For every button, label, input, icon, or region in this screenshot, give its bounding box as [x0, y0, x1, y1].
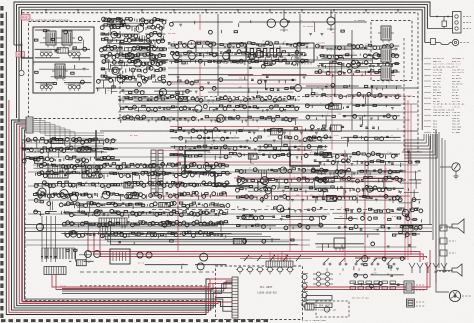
wire heavy trace 1	[185, 151, 250, 187]
main cluster H2	[59, 201, 231, 238]
pll transistor row	[236, 267, 294, 274]
connector J7 ribbon	[44, 267, 66, 275]
diode matrix D1	[409, 263, 447, 273]
mid cluster J	[236, 167, 330, 204]
wire rail I	[118, 111, 418, 113]
wire J5 fanout	[100, 226, 298, 244]
resistor ladder	[42, 248, 75, 259]
wire rail E	[33, 164, 418, 166]
wire right bus drop	[421, 60, 423, 130]
wire rail F	[168, 59, 370, 61]
mic connector J12	[436, 283, 471, 302]
wire rail S	[168, 67, 368, 69]
rx unit dashed border	[29, 22, 121, 119]
label PB-1534A	[303, 25, 314, 28]
label DETECTOR	[196, 40, 207, 43]
transformer T2	[59, 31, 75, 48]
wire vertical V4	[351, 30, 353, 130]
coil array L1	[40, 51, 52, 58]
cluster X	[145, 253, 227, 270]
footer text 2	[352, 297, 370, 300]
wire vertical V5	[177, 60, 179, 130]
speaker SP1	[444, 219, 464, 233]
top strip cluster	[170, 19, 367, 36]
label TUB	[36, 201, 40, 204]
label AF AMP	[130, 134, 139, 137]
red riser PLL	[278, 254, 287, 261]
wire arrows down	[41, 216, 57, 262]
switch cluster M	[332, 207, 422, 232]
left group	[34, 192, 57, 216]
transformer T1	[43, 31, 59, 48]
IC U4	[297, 43, 314, 65]
IC U5	[196, 42, 212, 53]
rx box1 wiring	[35, 30, 91, 61]
meter M1	[440, 163, 460, 179]
IC Q11 block	[82, 165, 100, 178]
contact slashes	[240, 255, 312, 261]
connector J2 ribbon	[151, 150, 156, 196]
wire top bus to jack	[425, 39, 452, 45]
wire rail G	[118, 99, 300, 101]
mixer cluster D	[315, 43, 400, 79]
label NB AMP	[168, 32, 177, 35]
label 2SC1945	[42, 83, 75, 86]
label ANT	[16, 52, 25, 58]
op-amp U2	[258, 181, 267, 190]
spk circle	[305, 304, 330, 312]
label 28MHz	[354, 19, 366, 22]
label VCO	[250, 162, 255, 165]
if chain cluster C2	[168, 64, 307, 79]
transistor Q17	[85, 251, 101, 258]
right cluster L	[311, 151, 404, 204]
pll resistor pairs	[313, 272, 333, 286]
filter unit dashed border	[371, 21, 412, 81]
red top rail	[170, 14, 395, 84]
wire rail L	[20, 147, 232, 149]
connector J14	[407, 299, 426, 307]
wire vertical V6	[247, 60, 249, 126]
red verticals center-right	[345, 150, 385, 262]
transistor Q16	[36, 223, 43, 230]
wire rail J	[118, 119, 410, 121]
coil array L4	[68, 84, 80, 91]
transistor Q13	[60, 190, 69, 199]
coil array L3	[40, 84, 52, 91]
wire vertical V7	[367, 96, 369, 196]
transistor Q12	[38, 188, 46, 196]
red right rails	[330, 96, 412, 260]
wire top bus bundle	[14, 2, 430, 122]
band dashed overlay	[80, 285, 205, 287]
wire rail D	[25, 240, 310, 245]
red mid rail 2	[22, 130, 290, 251]
connector row right	[440, 225, 456, 256]
mid cluster I	[170, 127, 329, 164]
cluster S	[96, 78, 118, 94]
wire heavy trace 2	[258, 151, 320, 167]
wire rail P	[28, 199, 330, 201]
red label bottom	[60, 256, 253, 288]
label REG	[352, 151, 361, 154]
pin name table	[424, 57, 465, 134]
red bus bottom loop	[23, 142, 431, 302]
rx box2 wiring	[33, 63, 91, 90]
red mid rail 1	[170, 127, 302, 252]
resistor row bottom	[350, 281, 396, 289]
connector J5 ribbon	[99, 218, 127, 226]
label RX UNIT	[31, 18, 70, 22]
main bottom dashed 272	[80, 271, 214, 273]
wire rail A	[96, 87, 418, 89]
wire rail C	[25, 225, 432, 232]
wire rail O	[28, 185, 330, 187]
connector J6 ribbon	[266, 261, 293, 267]
cluster O	[353, 256, 406, 288]
label SPK UNIT	[318, 305, 336, 312]
red mid rail 3	[155, 150, 312, 152]
spk unit dashed border	[316, 301, 349, 317]
wire rail K	[22, 142, 418, 144]
main cluster H	[34, 161, 232, 201]
transistor Q14	[70, 194, 77, 201]
wire vertical V3	[334, 14, 336, 96]
wire rail B	[100, 130, 418, 132]
wire top bus to J pins	[427, 16, 453, 29]
wire J1 fanout	[33, 119, 104, 152]
label MIXER	[318, 42, 325, 45]
wire heavy trace 3	[120, 44, 168, 60]
transistor Q31	[327, 10, 335, 31]
connector J10	[453, 12, 472, 34]
op-amp U1	[238, 176, 248, 186]
footer text	[302, 319, 326, 322]
connector J1 ribbon	[26, 117, 33, 133]
main unit internal divider 2	[152, 209, 418, 211]
wire vertical V2	[299, 14, 301, 84]
connector J4 ribbon	[232, 277, 238, 318]
wire vertical V8	[204, 126, 206, 165]
main unit dashed border bottom	[25, 299, 205, 301]
main unit dashed border top	[22, 12, 418, 14]
wire rail M	[28, 156, 232, 158]
audio cluster G	[21, 137, 118, 163]
IC U3	[229, 43, 246, 64]
red grid extra	[150, 60, 410, 252]
transistor Q15	[102, 191, 110, 199]
transistor pair Q20	[137, 252, 152, 258]
main unit dashed border right	[417, 13, 419, 152]
page cut-line border left	[0, 6, 3, 318]
relay RL1	[110, 249, 130, 264]
top bus stubs	[45, 9, 399, 13]
cluster Z	[315, 234, 420, 251]
rx filter box 2	[33, 62, 94, 93]
coil array L2	[68, 51, 80, 58]
cluster N	[236, 205, 327, 231]
IC Q10 block	[48, 165, 68, 178]
transformer T3	[52, 64, 68, 81]
rx filter box 1	[33, 27, 94, 62]
main unit dashed border right inner	[403, 38, 405, 152]
if chain cluster C	[168, 40, 309, 66]
page cut-line border bottom	[1, 319, 269, 322]
cluster W2	[66, 249, 94, 265]
row cluster K	[118, 237, 294, 245]
connector J13	[404, 281, 425, 293]
main unit internal divider	[118, 96, 418, 98]
wire left bus bundle	[6, 12, 232, 315]
detector cluster E	[195, 77, 296, 95]
wire right bus fan	[404, 134, 437, 158]
pll unit dashed border	[216, 266, 303, 320]
chain transistor row	[173, 53, 302, 92]
speaker SP2	[434, 264, 462, 276]
crystal filter X1	[301, 296, 332, 308]
band extra wires	[62, 281, 232, 294]
wire rail N	[28, 171, 418, 173]
filter column D2	[378, 26, 394, 83]
red power bus trio	[88, 232, 427, 262]
if cluster F	[118, 95, 300, 125]
wire right bundle	[430, 130, 445, 283]
red wires to J6	[270, 252, 290, 262]
cluster P	[397, 151, 423, 237]
wire heavy trace 4	[96, 130, 120, 160]
wire rail R	[168, 47, 368, 49]
wire rail Q	[28, 213, 330, 215]
cluster T	[305, 83, 401, 147]
main unit dashed border left	[24, 135, 26, 300]
wire vertical V1	[217, 14, 219, 96]
wire rail H	[118, 103, 418, 105]
label PLL UNIT	[257, 286, 278, 295]
switch row S1-S5	[323, 258, 395, 276]
label P/O RX	[21, 15, 30, 21]
label AF PA	[138, 262, 145, 265]
pll transistor column	[301, 274, 308, 310]
connector J3 ribbon	[158, 150, 163, 196]
rf amp cluster A	[100, 16, 168, 82]
wire antenna trunk	[14, 42, 33, 76]
transistor Q30	[280, 10, 288, 32]
jack J11	[452, 39, 470, 45]
label IF AMP	[262, 40, 271, 43]
ceramic filter ladder	[247, 49, 298, 61]
cluster S2	[120, 79, 195, 96]
IC U6	[334, 238, 345, 251]
